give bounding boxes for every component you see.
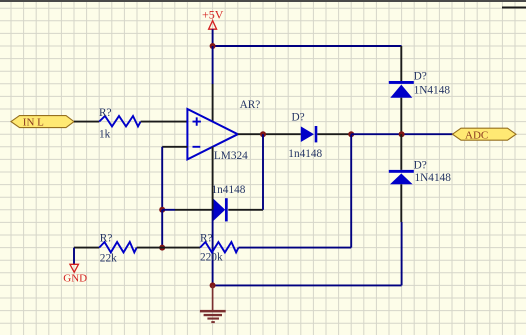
wire (down to feedback) — [161, 147, 163, 210]
wire (GND to R2) — [74, 247, 99, 249]
resistor R3 220k — [200, 233, 239, 264]
junction (output node) — [260, 131, 266, 137]
svg-text:D?: D? — [414, 160, 427, 172]
wire (feedback right) — [228, 209, 263, 211]
wire (R3 right) — [239, 247, 352, 249]
junction (clamp node left) — [348, 131, 354, 137]
wire (pin above D2) — [400, 46, 402, 81]
wire (GND drop) — [73, 248, 75, 265]
junction (ground node) — [210, 282, 216, 288]
wire (feedback left) — [162, 209, 175, 211]
wire (ground rail) — [213, 284, 402, 286]
wire (op-amp output) — [238, 133, 301, 135]
diode D3 1N4148 (bottom vertical) — [389, 160, 451, 185]
wire (R2 to node) — [137, 247, 163, 249]
wire (D4 anode pin) — [175, 209, 213, 211]
svg-text:LM324: LM324 — [214, 150, 248, 162]
svg-text:D?: D? — [292, 111, 305, 123]
svg-text:ADC: ADC — [465, 129, 488, 141]
wire (down to ground rail) — [401, 222, 403, 285]
diode D2 1N4148 (top vertical) — [389, 71, 451, 98]
svg-text:+5V: +5V — [202, 8, 224, 22]
svg-text:AR?: AR? — [240, 99, 261, 111]
wire (V+ pin) — [212, 84, 214, 122]
power port +5V — [202, 8, 224, 46]
svg-text:GND: GND — [63, 272, 87, 284]
junction (clamp node right) — [399, 131, 405, 137]
svg-text:IN L: IN L — [23, 117, 44, 129]
power port GND — [63, 264, 87, 284]
wire (V- continues to ground) — [212, 210, 214, 286]
junction (divider node) — [159, 245, 165, 251]
diode D4 1n4148 (feedback) — [212, 184, 246, 222]
wire (pin above D3) — [400, 134, 402, 170]
wire (R1 to op-amp +) — [141, 121, 188, 123]
ground (earth symbol) — [200, 285, 226, 323]
junction (inverting node) — [159, 207, 165, 213]
resistor R1 1k — [99, 107, 141, 140]
wire (D1 to node) — [317, 133, 351, 135]
wire (pin below D2) — [400, 98, 402, 135]
wire (+5V rail horizontal) — [213, 45, 402, 47]
wire (node to R3) — [162, 247, 200, 249]
port ADC — [453, 128, 517, 141]
svg-text:R?: R? — [99, 107, 112, 119]
wire (feedback up to output) — [262, 134, 264, 210]
svg-text:220k: 220k — [200, 252, 223, 264]
junction (+5V node) — [210, 43, 216, 49]
resistor R2 22k — [99, 232, 137, 264]
svg-text:22k: 22k — [100, 252, 117, 264]
svg-text:1n4148: 1n4148 — [212, 184, 246, 196]
svg-text:1N4148: 1N4148 — [414, 84, 451, 96]
svg-text:D?: D? — [414, 71, 427, 83]
op-amp U1 LM324 — [187, 99, 260, 162]
svg-text:R?: R? — [100, 232, 113, 244]
port IN L — [11, 116, 74, 129]
wire (inverting node down) — [161, 210, 163, 248]
wire (top-right stub) — [502, 7, 526, 9]
wire (pin below D3) — [400, 184, 402, 222]
wire (IN L to R1) — [74, 121, 99, 123]
svg-text:1n4148: 1n4148 — [288, 148, 322, 160]
wire (V- pin down) — [212, 147, 214, 210]
wire (inverting input) — [162, 146, 187, 148]
wire (V+ wire down) — [212, 46, 214, 84]
diode D1 1n4148 (series output) — [288, 111, 322, 159]
svg-text:1k: 1k — [99, 128, 111, 140]
wire (up to clamp node) — [350, 134, 352, 247]
wire (node to ADC) — [351, 133, 452, 135]
svg-text:1N4148: 1N4148 — [415, 172, 452, 184]
svg-text:R?: R? — [200, 233, 213, 245]
